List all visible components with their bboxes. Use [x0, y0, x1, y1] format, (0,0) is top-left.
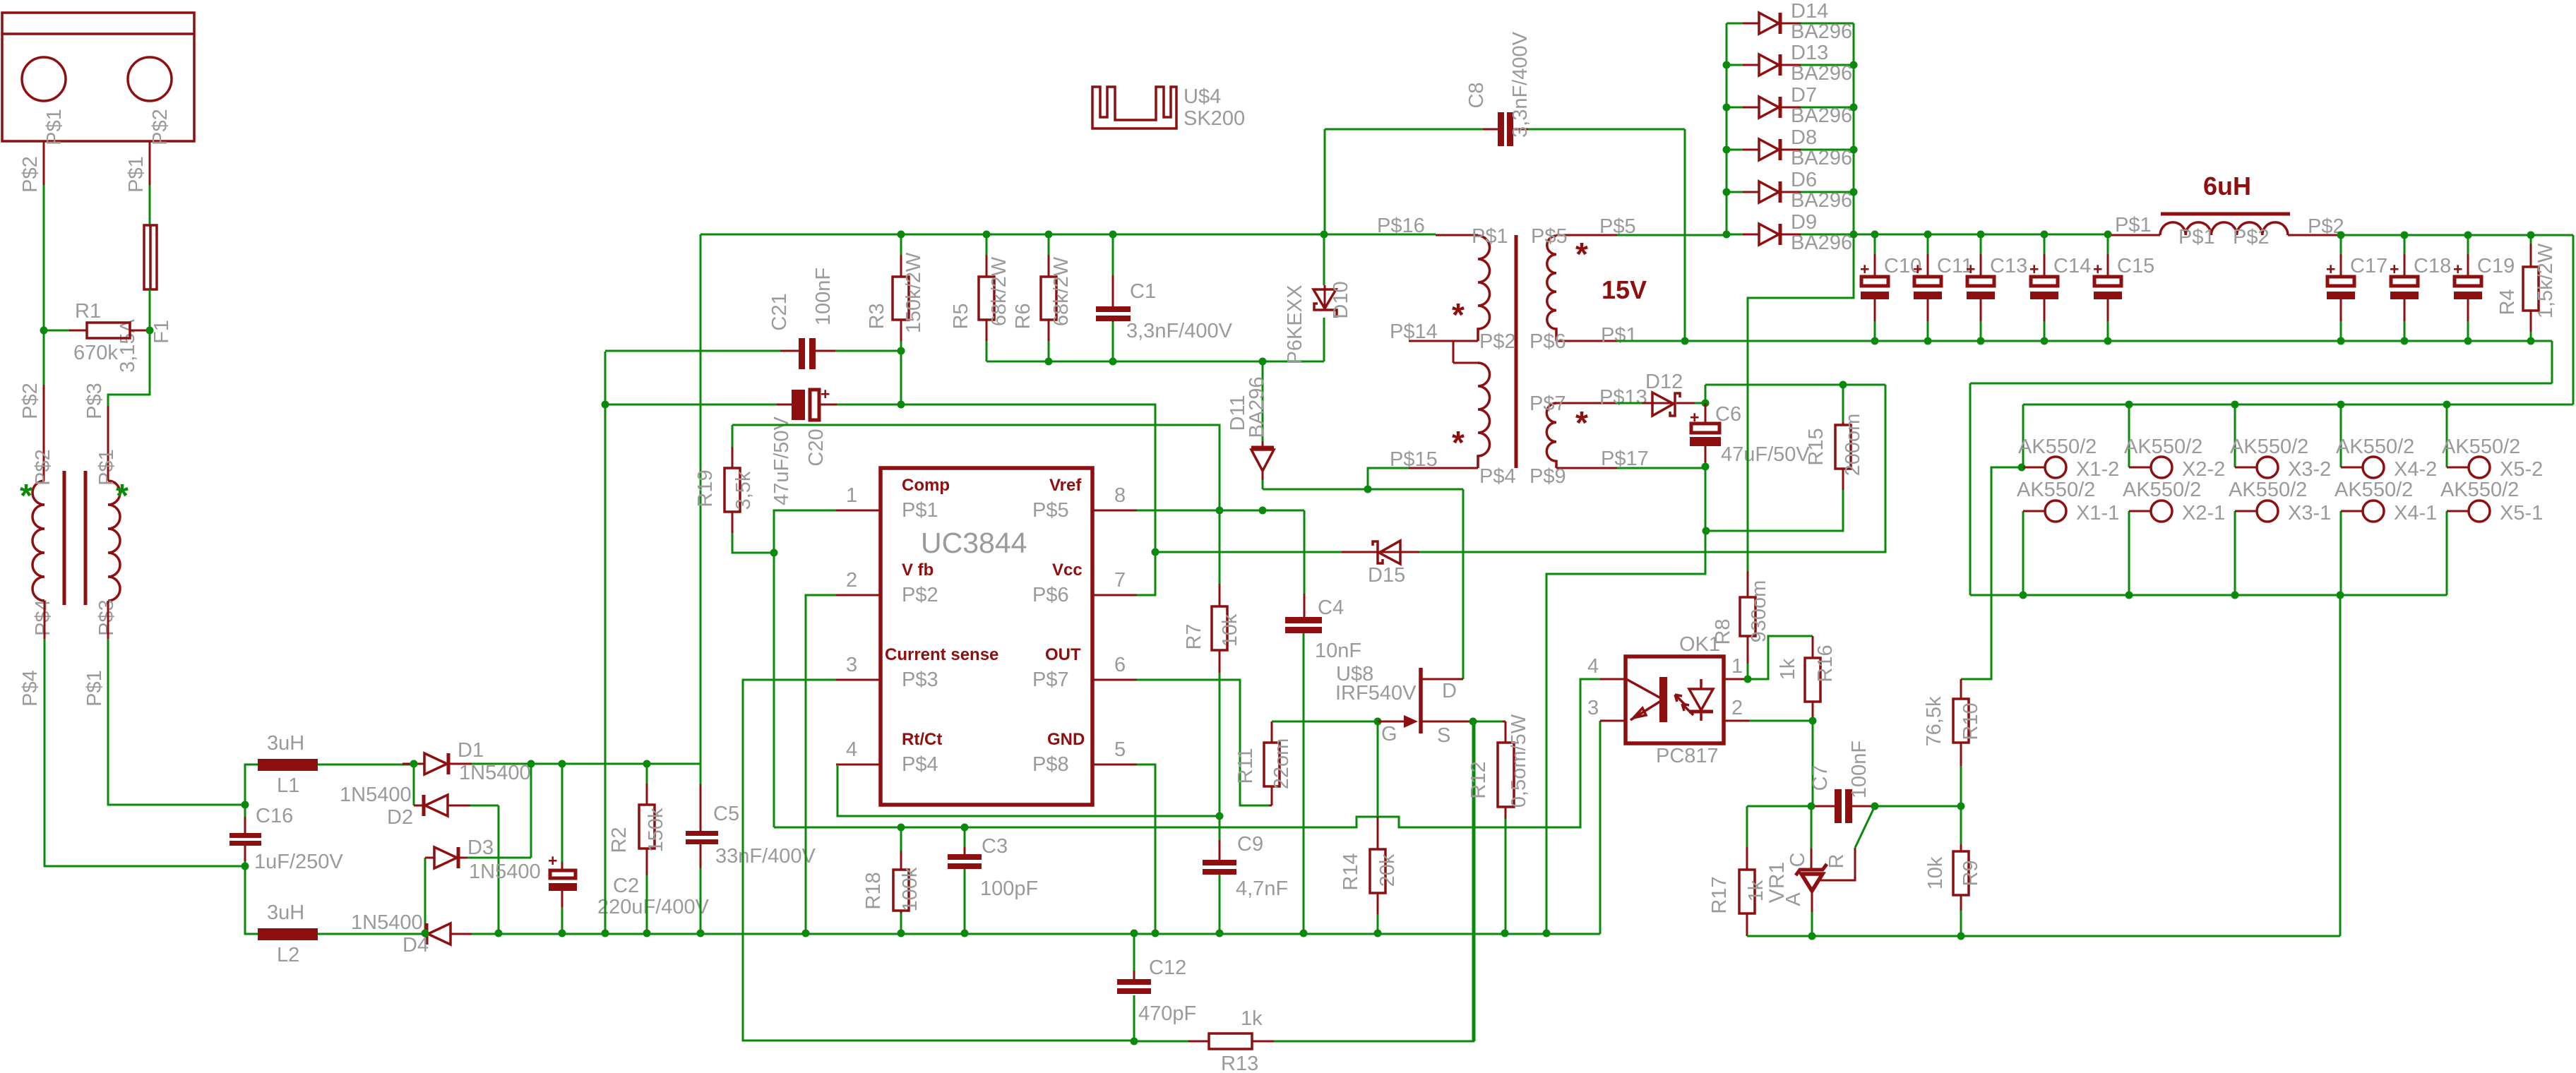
svg-text:D10: D10 [1330, 281, 1352, 318]
wire gate line [1272, 721, 1378, 723]
svg-text:R14: R14 [1340, 853, 1362, 890]
svg-text:R15: R15 [1805, 428, 1827, 465]
diode D7 BA296 [1727, 97, 1854, 118]
resistor R12 [1498, 721, 1514, 933]
capacitor C8 [1325, 112, 1685, 341]
wire pin4 RtCt [837, 765, 1220, 816]
svg-text:BA296: BA296 [1791, 104, 1852, 127]
svg-text:C1: C1 [1130, 280, 1156, 303]
capacitor C13 [1966, 235, 1995, 341]
transformer T1 secondary winding [108, 481, 120, 601]
wire C20 to Vcc pin [901, 404, 1155, 595]
wire diode stack cathode bus [1853, 23, 1855, 234]
svg-text:R1: R1 [75, 300, 101, 323]
wire Vref line [1137, 510, 1263, 512]
capacitor C21 [605, 338, 901, 369]
svg-text:P$17: P$17 [1601, 448, 1649, 470]
svg-text:100pF: 100pF [980, 877, 1038, 900]
regulator VR1 [1796, 806, 1875, 936]
svg-text:AK550/2: AK550/2 [2017, 479, 2095, 501]
resistor R8 [1740, 571, 1755, 679]
svg-text:AK550/2: AK550/2 [2440, 479, 2519, 501]
svg-text:*: * [1452, 424, 1465, 461]
svg-text:D7: D7 [1791, 84, 1817, 107]
svg-text:20k: 20k [1376, 853, 1399, 887]
svg-text:100nF: 100nF [812, 268, 835, 325]
diode D3 [425, 764, 531, 933]
svg-text:D8: D8 [1791, 126, 1817, 149]
svg-text:15V: 15V [1602, 275, 1647, 304]
svg-text:76,5k: 76,5k [1923, 696, 1945, 746]
wire secondary ground bottom [1747, 935, 2340, 937]
svg-text:X2-1: X2-1 [2182, 502, 2225, 524]
diode D9 BA296 [1727, 224, 1854, 245]
transformer T2 core [1515, 235, 1518, 468]
capacitor C2 [548, 764, 577, 933]
svg-text:+: + [548, 851, 557, 870]
svg-text:1k: 1k [1777, 658, 1799, 680]
svg-text:10k: 10k [1219, 613, 1241, 647]
svg-text:8: 8 [1114, 484, 1126, 507]
svg-text:D4: D4 [402, 934, 429, 957]
junction output rail [1871, 231, 2112, 239]
junction OK1 pin2 [1809, 717, 1817, 725]
wire OK1 pin2 net [1749, 721, 1813, 806]
diode D6 BA296 [1727, 181, 1854, 203]
svg-text:C12: C12 [1149, 957, 1186, 979]
svg-text:UC3844: UC3844 [921, 527, 1027, 559]
svg-text:R5: R5 [950, 303, 972, 329]
wire drain net [1263, 489, 1463, 679]
svg-text:P$2: P$2 [149, 109, 172, 145]
svg-text:P$4: P$4 [1479, 465, 1516, 488]
svg-text:1N5400: 1N5400 [459, 762, 531, 784]
wire AC line right to fuse [149, 185, 151, 225]
svg-text:Current sense: Current sense [885, 645, 998, 664]
wire C21 C20 ground riser [604, 352, 607, 933]
diode D11 BA296 [1251, 361, 1274, 489]
svg-text:P$3: P$3 [83, 383, 106, 419]
connector X2-2 AK550/2 [2129, 404, 2172, 478]
wire pin3 current sense [743, 680, 1134, 1041]
svg-text:OUT: OUT [1045, 645, 1081, 664]
T2 secondary winding 1 [1547, 235, 1617, 341]
svg-text:1: 1 [1731, 655, 1743, 678]
svg-text:L1: L1 [277, 774, 299, 797]
transformer T1 core [64, 471, 85, 605]
svg-text:3,15A: 3,15A [117, 318, 139, 372]
junction C20 node [602, 401, 905, 409]
svg-text:3: 3 [846, 654, 857, 676]
wire R3-C20 link [900, 351, 902, 404]
T1 pin stub P$3 [107, 406, 109, 481]
connector pin stubs [44, 141, 150, 185]
svg-text:220uF/400V: 220uF/400V [597, 896, 710, 918]
svg-text:R9: R9 [1960, 860, 1982, 886]
wire post filter rail [2341, 235, 2573, 404]
svg-text:BA296: BA296 [1791, 189, 1852, 212]
svg-text:P$2: P$2 [19, 383, 42, 419]
svg-text:Rt/Ct: Rt/Ct [902, 730, 942, 749]
T1 pin stub P$2 [43, 385, 45, 481]
svg-text:C3: C3 [982, 835, 1008, 858]
svg-text:C9: C9 [1237, 833, 1263, 856]
svg-text:0,5om/5W: 0,5om/5W [1508, 714, 1530, 808]
optocoupler OK1 PC817 [1600, 657, 1749, 743]
svg-text:X2-2: X2-2 [2182, 458, 2225, 481]
svg-text:AK550/2: AK550/2 [2229, 479, 2307, 501]
T2 primary bottom stub [1409, 467, 1478, 469]
svg-text:P$1: P$1 [2178, 226, 2215, 248]
wire sec1 bottom [1617, 340, 1685, 342]
svg-text:1k: 1k [1241, 1007, 1263, 1030]
capacitor C3 [948, 827, 982, 933]
wire pin2 Vfb to ground [806, 595, 836, 933]
svg-text:BA296: BA296 [1791, 62, 1852, 85]
resistor R18 [893, 827, 909, 933]
svg-text:R7: R7 [1183, 623, 1205, 649]
transformer T1 primary winding [32, 481, 44, 601]
junction HV bus [559, 760, 651, 768]
svg-text:D6: D6 [1791, 169, 1817, 191]
wire sec2 top to D12 [1617, 402, 1642, 404]
capacitor C17 [2326, 235, 2355, 341]
wire source sense [1472, 721, 1474, 1041]
connector X4-2 AK550/2 [2341, 404, 2384, 478]
junction post rail [2337, 232, 2535, 239]
junction secondary ground bottom [1808, 933, 1965, 940]
junction source node [1469, 718, 1477, 726]
capacitor C1 [1096, 234, 1131, 361]
svg-text:R16: R16 [1814, 645, 1837, 682]
junction bridge outputs [410, 760, 535, 937]
svg-text:150k/2W: 150k/2W [902, 252, 925, 333]
junction output plus bus [2125, 401, 2451, 409]
junction X1-2 sense [2018, 464, 2026, 472]
diode D1 [402, 753, 531, 774]
svg-text:D9: D9 [1791, 211, 1817, 234]
svg-text:C15: C15 [2117, 255, 2154, 277]
capacitor C11 [1913, 235, 1942, 341]
junction C6 minus [1702, 463, 1710, 535]
resistor R19 [724, 425, 774, 553]
capacitor C16 [229, 805, 261, 866]
svg-text:68k/2W: 68k/2W [988, 256, 1010, 326]
junction Vref line [1216, 507, 1267, 515]
svg-text:P$1: P$1 [902, 499, 938, 522]
svg-text:P$2: P$2 [1479, 330, 1516, 353]
resistor R17 [1739, 806, 1755, 936]
svg-text:R19: R19 [694, 469, 717, 507]
svg-text:A: A [1782, 892, 1805, 906]
capacitor C7 [1747, 789, 1873, 823]
capacitor C20 [605, 385, 901, 420]
svg-text:Vcc: Vcc [1052, 561, 1083, 580]
svg-text:4: 4 [846, 738, 857, 761]
capacitor C12 [1117, 933, 1151, 1041]
svg-text:AK550/2: AK550/2 [2230, 436, 2308, 458]
svg-text:R12: R12 [1467, 761, 1490, 798]
diode D12 [1642, 392, 1705, 416]
junction drain net [1364, 486, 1372, 493]
svg-text:1N5400: 1N5400 [351, 911, 423, 934]
svg-text:*: * [20, 477, 32, 514]
svg-text:C18: C18 [2414, 255, 2451, 277]
resistor R1 [44, 323, 150, 338]
svg-text:P$1: P$1 [95, 449, 118, 486]
junction R3 bottom [898, 347, 905, 355]
svg-text:100nF: 100nF [1848, 741, 1871, 798]
resistor R6 [1041, 234, 1056, 361]
connector X3-2 AK550/2 [2235, 404, 2278, 478]
svg-text:P$2: P$2 [2233, 226, 2270, 248]
svg-text:X5-1: X5-1 [2500, 502, 2543, 524]
inductor L2 [245, 866, 417, 940]
svg-text:BA296: BA296 [1791, 20, 1852, 43]
svg-text:D2: D2 [387, 806, 413, 829]
svg-text:X3-2: X3-2 [2288, 458, 2331, 481]
svg-text:C6: C6 [1715, 403, 1741, 426]
svg-text:+: + [2326, 260, 2335, 278]
svg-text:2: 2 [1731, 697, 1743, 719]
svg-text:P$14: P$14 [1390, 320, 1438, 343]
svg-text:+: + [1913, 260, 1922, 278]
svg-text:P$2: P$2 [32, 449, 54, 486]
fuse F1 [144, 225, 157, 289]
svg-text:10k: 10k [1924, 856, 1947, 889]
wire secondary ground rail [1685, 341, 2552, 595]
capacitor C19 [2453, 235, 2482, 341]
svg-text:P$4: P$4 [32, 599, 54, 636]
svg-text:1: 1 [846, 484, 857, 507]
diode D2 [414, 764, 499, 933]
svg-text:R13: R13 [1221, 1053, 1258, 1073]
T2 primary winding 2 [1478, 363, 1490, 468]
svg-text:670k: 670k [73, 342, 118, 364]
wire sec1 top [1617, 234, 1727, 236]
svg-text:X4-2: X4-2 [2394, 458, 2437, 481]
svg-text:D14: D14 [1791, 0, 1828, 23]
IC U1 UC3844 body [836, 468, 1137, 805]
svg-text:+: + [2029, 260, 2039, 278]
svg-text:AK550/2: AK550/2 [2124, 436, 2202, 458]
svg-text:+: + [1860, 260, 1869, 278]
svg-text:GND: GND [1047, 730, 1085, 749]
wire node to T1 P$2 [43, 330, 45, 385]
junction R19-comp [770, 549, 778, 557]
wire output plus bus [2023, 404, 2573, 406]
svg-text:100k: 100k [899, 867, 922, 911]
svg-text:P$4: P$4 [19, 670, 42, 707]
svg-text:AK550/2: AK550/2 [2336, 436, 2414, 458]
wire pin5 GND [1137, 765, 1155, 933]
svg-text:3,3nF/400V: 3,3nF/400V [1126, 320, 1233, 342]
wire aux supply link [1705, 384, 1885, 386]
diode D8 BA296 [1727, 139, 1854, 160]
capacitor C10 [1860, 235, 1889, 341]
svg-text:R10: R10 [1960, 702, 1982, 740]
svg-text:S: S [1437, 724, 1450, 747]
svg-text:33nF/400V: 33nF/400V [715, 845, 816, 868]
svg-text:P$7: P$7 [1529, 392, 1566, 415]
svg-text:5: 5 [1114, 738, 1126, 761]
T1 bottom pin stubs [44, 601, 108, 639]
svg-text:Comp: Comp [902, 476, 950, 495]
svg-text:D3: D3 [467, 837, 494, 859]
svg-text:IRF540V: IRF540V [1335, 682, 1417, 705]
connector X (AC input) [2, 13, 194, 141]
svg-text:+: + [821, 385, 830, 403]
svg-text:X5-2: X5-2 [2500, 458, 2543, 481]
heatsink U$4 SK200 [1092, 87, 1176, 128]
svg-text:2: 2 [846, 569, 857, 592]
svg-text:D12: D12 [1645, 371, 1683, 393]
resistor R9 [1953, 806, 1969, 936]
connector X5-1 AK550/2 [2447, 500, 2490, 595]
svg-text:P$1: P$1 [2115, 214, 2152, 236]
diode D13 BA296 [1727, 54, 1854, 76]
svg-text:Vref: Vref [1049, 476, 1082, 495]
svg-text:AK550/2: AK550/2 [2018, 436, 2097, 458]
capacitor C14 [2029, 235, 2058, 341]
connector X4-1 AK550/2 [2341, 500, 2384, 595]
wire Vcc from aux [1419, 385, 1885, 552]
connector X2-1 AK550/2 [2129, 500, 2172, 595]
svg-text:P$3: P$3 [95, 599, 118, 636]
svg-text:1k: 1k [1745, 880, 1767, 901]
svg-text:930om: 930om [1748, 580, 1770, 643]
wire pin6 OUT [1137, 680, 1269, 805]
svg-text:D1: D1 [458, 739, 484, 762]
svg-text:3,3nF/400V: 3,3nF/400V [1509, 31, 1532, 138]
junction HV rail [898, 231, 1328, 239]
svg-text:P$2: P$2 [902, 584, 938, 606]
svg-text:3,5k: 3,5k [732, 471, 755, 510]
capacitor C15 [2093, 235, 2122, 341]
svg-text:P$1: P$1 [1601, 324, 1638, 347]
capacitor C6 [1690, 385, 1721, 467]
wire P$15 branch [1368, 468, 1409, 489]
wire HV+ bus [531, 234, 700, 764]
wire T1 P$1 to C16 top [108, 639, 245, 805]
diode D15 [1342, 541, 1419, 564]
connector X1-1 AK550/2 [2023, 500, 2066, 595]
wire output rail [1854, 234, 2111, 236]
svg-text:U$4: U$4 [1183, 85, 1221, 108]
svg-text:3: 3 [1587, 697, 1599, 719]
svg-text:P$3: P$3 [902, 669, 938, 691]
svg-text:P$5: P$5 [1032, 499, 1069, 522]
junction diode stack left [1723, 61, 1731, 239]
inductor L3 6uH [2111, 214, 2341, 235]
svg-text:C2: C2 [613, 875, 639, 897]
svg-text:P$16: P$16 [1377, 215, 1425, 237]
svg-text:P$6: P$6 [1529, 330, 1566, 353]
svg-text:C13: C13 [1990, 255, 2027, 277]
resistor R4 [2523, 235, 2539, 341]
wire comp line [774, 679, 1600, 827]
svg-text:P$9: P$9 [1529, 465, 1566, 488]
wire R19 top to Vref line [732, 425, 1220, 510]
svg-text:C14: C14 [2053, 255, 2091, 277]
svg-text:4: 4 [1587, 655, 1599, 678]
capacitor C5 [686, 764, 718, 933]
junction R1 nodes [40, 327, 154, 335]
connector X3-1 AK550/2 [2235, 500, 2278, 595]
connector X1-2 AK550/2 [2023, 404, 2066, 478]
transistor U$8 IRF540V [1378, 668, 1503, 733]
svg-text:+: + [1966, 260, 1975, 278]
connector X5-2 AK550/2 [2447, 404, 2490, 478]
svg-text:+: + [2390, 260, 2399, 278]
svg-text:X4-1: X4-1 [2394, 502, 2437, 524]
diode D4 [417, 923, 472, 945]
svg-text:D13: D13 [1791, 42, 1828, 64]
svg-text:BA296: BA296 [1791, 232, 1852, 254]
svg-text:C7: C7 [1809, 765, 1832, 791]
svg-text:6: 6 [1114, 654, 1126, 676]
resistor R11 [1264, 721, 1280, 805]
svg-text:P$13: P$13 [1599, 386, 1647, 409]
resistor R5 [979, 234, 994, 361]
svg-text:1,5k/2W: 1,5k/2W [2534, 243, 2557, 318]
svg-text:C17: C17 [2350, 255, 2387, 277]
junction secondary ground rail [1681, 337, 2535, 345]
junction OK1 pin1 [1744, 676, 1752, 683]
wire Vcc feed line [1155, 551, 1342, 553]
svg-text:V fb: V fb [902, 561, 934, 580]
svg-text:P$1: P$1 [1472, 225, 1508, 248]
svg-text:3uH: 3uH [267, 901, 304, 924]
wire fuse to node [149, 289, 151, 330]
svg-text:X3-1: X3-1 [2288, 502, 2331, 524]
svg-text:R18: R18 [862, 872, 885, 909]
svg-text:R3: R3 [866, 303, 888, 329]
wire node to T1 P$3 [108, 330, 150, 406]
junction C16 nodes [241, 801, 249, 870]
svg-text:R17: R17 [1708, 876, 1731, 913]
svg-text:C16: C16 [256, 805, 293, 827]
junction gate node [1374, 718, 1382, 726]
svg-text:L2: L2 [277, 944, 299, 966]
svg-text:200om: 200om [1842, 414, 1864, 476]
svg-text:C4: C4 [1318, 597, 1344, 619]
capacitor C4 [1263, 510, 1322, 933]
svg-text:R4: R4 [2496, 289, 2519, 315]
diode D14 BA296 [1727, 13, 1854, 34]
junction output minus bus [2020, 592, 2344, 599]
svg-text:3uH: 3uH [267, 732, 304, 755]
svg-text:C21: C21 [768, 293, 791, 330]
wire comp net riser [774, 510, 836, 827]
resistor R16 [1748, 636, 1820, 721]
wire T1 P$4 to C16 bottom [44, 639, 245, 866]
svg-text:P$2: P$2 [19, 156, 42, 193]
svg-text:C19: C19 [2477, 255, 2515, 277]
svg-text:F1: F1 [150, 320, 173, 344]
svg-text:470pF: 470pF [1138, 1002, 1196, 1025]
wire snubber rail [986, 361, 1324, 363]
svg-text:+: + [2453, 260, 2462, 278]
wire AC line left [43, 185, 45, 330]
junction RtCt node [1216, 813, 1224, 820]
wire primary ground rail [417, 721, 1600, 934]
svg-text:P$7: P$7 [1032, 669, 1069, 691]
T2 secondary winding 2 [1546, 403, 1617, 468]
svg-text:BA296: BA296 [1246, 376, 1268, 438]
resistor R7 [1212, 510, 1227, 816]
svg-text:6uH: 6uH [2203, 172, 2251, 200]
